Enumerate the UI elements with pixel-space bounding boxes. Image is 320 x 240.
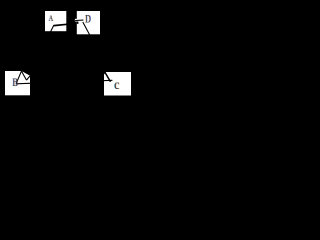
label c xyxy=(114,77,121,92)
node B box xyxy=(5,71,30,95)
edge D-B shaft arriving in B xyxy=(21,71,26,80)
edge A-B shaft arriving in B xyxy=(16,71,21,84)
edge A-D shaft arriving in D xyxy=(75,19,83,21)
label D xyxy=(85,13,92,26)
edge barb at B corner xyxy=(27,76,30,80)
node A box xyxy=(45,11,66,31)
svg-text:B: B xyxy=(13,77,19,89)
label A xyxy=(48,13,54,23)
svg-text:D: D xyxy=(85,13,91,26)
svg-text:c: c xyxy=(114,77,119,92)
black cut corner at B top-right xyxy=(21,71,30,76)
edge D-C shaft arriving in C xyxy=(105,72,111,82)
edge A-D shaft in A xyxy=(54,24,67,25)
edge A-B shaft in A xyxy=(50,25,54,33)
arrowhead white casing at D left edge xyxy=(75,19,77,22)
node D box xyxy=(77,11,100,34)
svg-text:A: A xyxy=(49,13,54,23)
node C box xyxy=(104,72,131,96)
edge B-C xyxy=(16,80,113,84)
edge D-C shaft in D xyxy=(83,22,90,35)
black pocket under arrowhead at D left edge xyxy=(77,21,79,24)
label B xyxy=(12,77,19,89)
